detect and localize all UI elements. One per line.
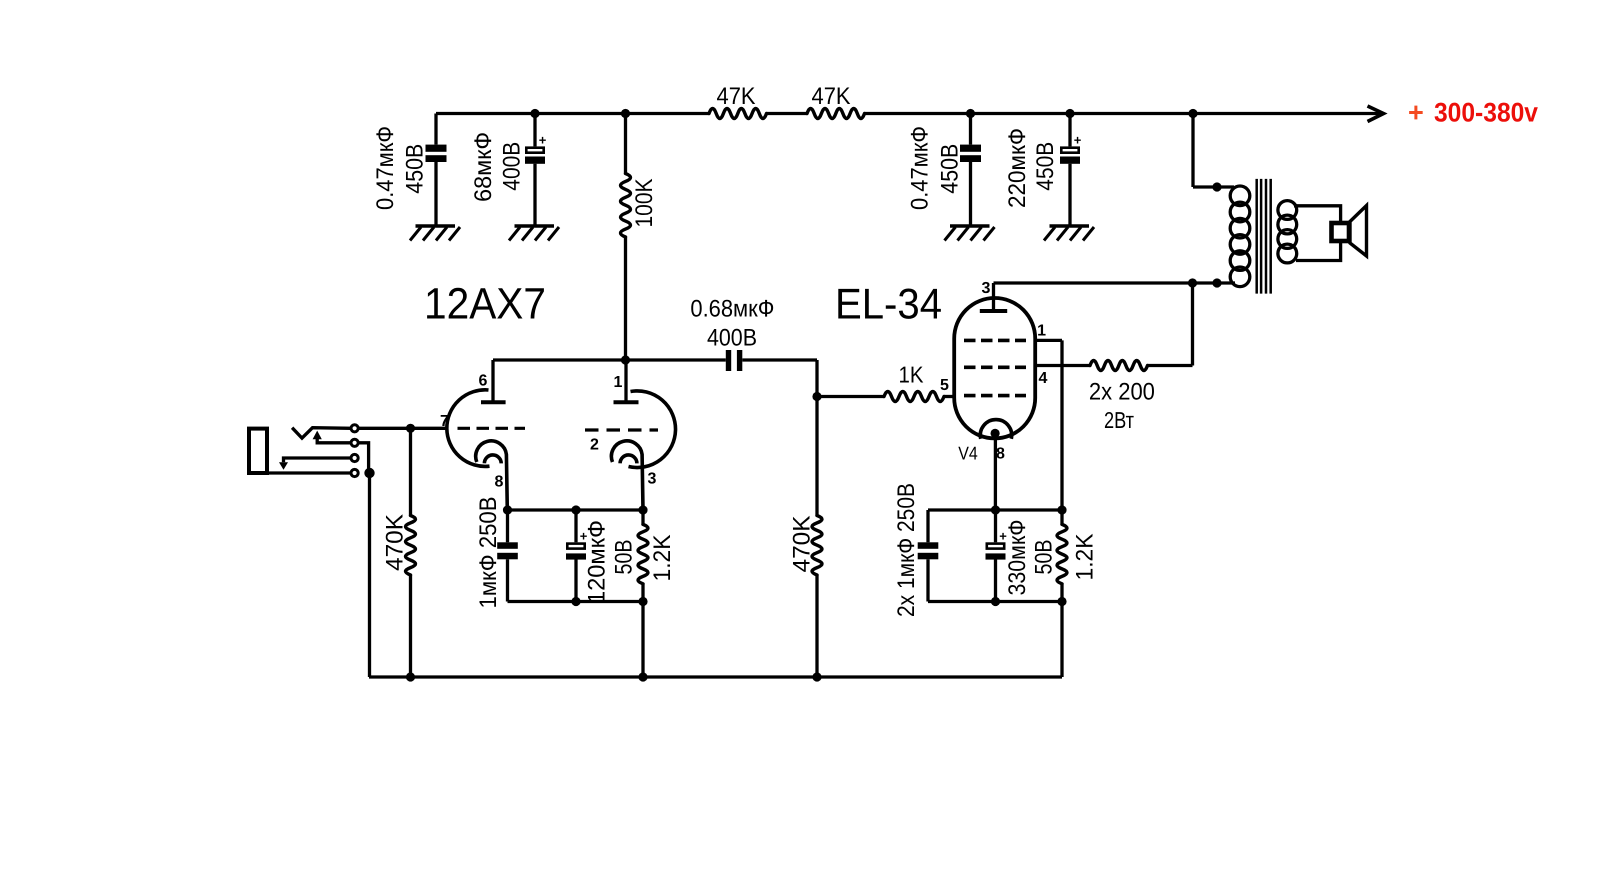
svg-text:8: 8: [996, 445, 1005, 462]
svg-text:4: 4: [1039, 370, 1048, 387]
svg-text:3: 3: [648, 470, 657, 487]
svg-text:120мкФ: 120мкФ: [584, 520, 611, 604]
svg-text:2x 1мкФ 250В: 2x 1мкФ 250В: [893, 483, 920, 617]
svg-text:470K: 470K: [788, 516, 815, 573]
svg-text:6: 6: [479, 372, 488, 389]
svg-text:450В: 450В: [1032, 142, 1059, 191]
svg-text:V4: V4: [958, 443, 978, 464]
svg-text:50В: 50В: [610, 540, 637, 575]
svg-text:330мкФ: 330мкФ: [1004, 520, 1031, 596]
svg-text:400В: 400В: [498, 142, 525, 191]
svg-text:1.2K: 1.2K: [649, 535, 676, 582]
svg-text:50В: 50В: [1031, 540, 1058, 575]
svg-text:8: 8: [495, 473, 504, 490]
svg-text:220мкФ: 220мкФ: [1004, 128, 1031, 208]
svg-text:2x 200: 2x 200: [1089, 379, 1155, 406]
svg-text:1: 1: [1037, 323, 1046, 340]
svg-text:1мкФ 250В: 1мкФ 250В: [475, 497, 502, 609]
svg-text:1.2K: 1.2K: [1071, 534, 1098, 581]
svg-text:+: +: [1074, 132, 1082, 147]
svg-text:5: 5: [940, 377, 949, 394]
svg-text:100K: 100K: [631, 179, 658, 228]
svg-text:+: +: [539, 132, 547, 147]
svg-text:1K: 1K: [899, 362, 925, 388]
svg-text:470K: 470K: [381, 514, 408, 571]
svg-text:2Вт: 2Вт: [1104, 407, 1134, 433]
svg-text:450В: 450В: [937, 144, 964, 194]
svg-text:3: 3: [982, 280, 991, 297]
svg-text:2: 2: [590, 436, 599, 453]
svg-text:EL-34: EL-34: [835, 281, 942, 329]
svg-text:47K: 47K: [812, 83, 851, 110]
svg-text:0.47мкФ: 0.47мкФ: [907, 126, 934, 210]
svg-text:400В: 400В: [707, 325, 757, 352]
svg-text:47K: 47K: [717, 83, 756, 110]
svg-text:0.68мкФ: 0.68мкФ: [690, 296, 774, 323]
svg-text:12AX7: 12AX7: [424, 280, 546, 329]
svg-text:7: 7: [440, 413, 449, 430]
svg-text:68мкФ: 68мкФ: [470, 132, 497, 202]
svg-text:0.47мкФ: 0.47мкФ: [372, 126, 399, 210]
svg-text:450В: 450В: [402, 144, 429, 194]
svg-text:1: 1: [614, 374, 623, 391]
